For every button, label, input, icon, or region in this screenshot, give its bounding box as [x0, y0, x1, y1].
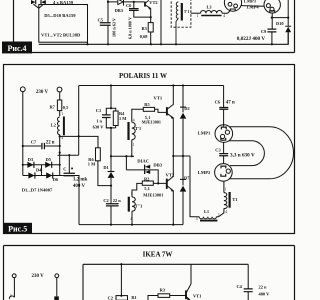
wire midpoint to L1 [190, 156, 199, 217]
svg-text:L3: L3 [207, 5, 213, 10]
diode D6 glyph [41, 0, 46, 4]
svg-text:0,5: 0,5 [63, 105, 69, 110]
svg-text:T1: T1 [232, 197, 238, 202]
svg-text:VT2: VT2 [149, 0, 157, 5]
svg-text:POLARIS 11 W: POLARIS 11 W [119, 72, 167, 80]
svg-text:R5: R5 [144, 102, 150, 107]
svg-text:4 x BA159: 4 x BA159 [53, 0, 74, 5]
svg-text:Рис.5: Рис.5 [8, 224, 27, 233]
section 1 frame (Fig.4) [2, 0, 295, 53]
svg-text:MJE13001: MJE13001 [142, 120, 161, 125]
bottom rail section 1 [39, 32, 288, 44]
svg-text:VT1: VT1 [193, 294, 201, 299]
diac branch wire [125, 156, 127, 170]
junction dots section 2 [22, 84, 184, 225]
svg-text:22 n: 22 n [259, 285, 267, 290]
svg-text:L2: L2 [51, 123, 56, 128]
wire T1 to rail [176, 18, 178, 44]
capacitor C1 [102, 115, 111, 118]
svg-text:1: 1 [197, 14, 199, 18]
wire C8 top [58, 154, 79, 156]
svg-text:1: 1 [225, 188, 227, 192]
svg-text:LMP3: LMP3 [244, 0, 257, 3]
svg-text:C4: C4 [237, 284, 243, 289]
svg-text:230 V: 230 V [36, 90, 49, 95]
svg-text:0,022J 400 V: 0,022J 400 V [237, 36, 266, 42]
svg-text:R2: R2 [144, 176, 149, 181]
svg-text:D10: D10 [276, 21, 284, 26]
top rail [79, 85, 224, 87]
svg-text:D1...D7 1N4007: D1...D7 1N4007 [22, 187, 53, 192]
svg-text:C2: C2 [103, 198, 108, 203]
resistor R3 (top) [148, 23, 153, 32]
bottom rail section 2 [79, 224, 183, 226]
capacitor C9 [267, 29, 276, 32]
bridge mid column [41, 165, 43, 176]
section 3 frame [4, 246, 295, 300]
lamp LMP4 [264, 0, 280, 29]
lamp tube loop inner [229, 141, 265, 166]
svg-text:C9: C9 [261, 29, 267, 34]
svg-text:T'1: T'1 [184, 10, 190, 14]
terminal right [57, 87, 62, 92]
svg-text:C6: C6 [126, 3, 132, 8]
resistor R1 [116, 296, 128, 300]
svg-text:22 n: 22 n [113, 198, 121, 203]
svg-text:C6: C6 [215, 100, 221, 105]
T1 core [181, 3, 183, 21]
svg-text:5,1: 5,1 [144, 186, 150, 191]
svg-text:1: 1 [218, 213, 220, 217]
svg-text:C1: C1 [96, 108, 101, 113]
svg-text:D5: D5 [46, 157, 52, 162]
resistor R7 [59, 92, 61, 100]
wire right terminal pad [56, 278, 58, 297]
svg-text:R3: R3 [160, 288, 166, 293]
svg-text:47 n: 47 n [226, 101, 235, 106]
transistor VT1 s3 [186, 264, 191, 300]
diac DB3 [126, 170, 158, 184]
svg-text:1: 1 [133, 143, 135, 147]
svg-text:1: 1 [61, 112, 63, 116]
svg-text:DB3: DB3 [153, 162, 162, 167]
wire node to diac [111, 155, 134, 157]
svg-text:C2: C2 [108, 295, 113, 300]
svg-text:IKEA 7W: IKEA 7W [143, 251, 173, 259]
bus vertical [78, 86, 80, 156]
svg-text:C3: C3 [215, 148, 221, 153]
capacitor C5 [100, 23, 111, 26]
capacitor C8 electrolytic [64, 155, 76, 176]
svg-text:DB3: DB3 [115, 8, 124, 13]
wire x161 [160, 0, 162, 44]
diode D5 glyph [31, 0, 35, 4]
svg-text:D1: D1 [103, 165, 108, 170]
svg-text:LMP1: LMP1 [198, 130, 211, 135]
svg-text:T''1: T''1 [135, 203, 143, 208]
wire C9-D10 top [272, 17, 288, 19]
svg-text:4: 4 [196, 217, 198, 221]
rail section 3 [83, 264, 248, 300]
bridge bottom wire [23, 176, 79, 225]
transformer T1 (output) [224, 181, 230, 209]
svg-text:D2: D2 [184, 106, 189, 111]
resistor R6 [96, 148, 101, 161]
resistor R2 [142, 181, 153, 185]
resistor R5 [143, 107, 154, 111]
diode D4 [28, 172, 34, 178]
lamp LMP3 [224, 0, 241, 11]
T1 primary winding [176, 2, 178, 18]
diac DB3 [118, 0, 123, 5]
svg-text:LMP2: LMP2 [198, 170, 211, 175]
transformer T1 dashed box [171, 0, 191, 27]
diac DB3 bar [123, 0, 125, 6]
svg-text:R7: R7 [50, 104, 56, 109]
svg-text:R3: R3 [142, 26, 148, 31]
svg-text:4: 4 [225, 210, 227, 214]
svg-text:1: 1 [131, 192, 133, 196]
svg-text:400 V: 400 V [259, 292, 271, 297]
terminal left [20, 87, 25, 92]
svg-text:1 M: 1 M [88, 161, 96, 166]
wire LMP3-LMP4 [242, 5, 265, 8]
diode D5 [45, 162, 51, 168]
lamp tube loop outer [229, 127, 293, 179]
svg-text:LMP4: LMP4 [247, 5, 260, 10]
svg-text:MJE13001: MJE13001 [143, 193, 163, 198]
wire to R6 [60, 136, 98, 147]
diode D2 [180, 86, 186, 157]
capacitor C4 [244, 264, 253, 300]
diode D3 [27, 162, 33, 168]
svg-text:T'1: T'1 [135, 126, 141, 131]
midpoint wire [173, 155, 190, 157]
capacitor C3 [219, 154, 228, 156]
capacitor C2 [106, 186, 119, 225]
svg-text:3,3 n 630 V: 3,3 n 630 V [230, 152, 255, 158]
wire diac row [108, 0, 144, 6]
svg-text:630 V: 630 V [93, 125, 105, 130]
label Рис.4 [2, 42, 32, 54]
svg-text:C7: C7 [31, 140, 37, 145]
svg-text:4: 4 [133, 119, 135, 123]
cut-off bridge diodes top [36, 0, 41, 4]
resistor R4 [113, 111, 118, 126]
junction dots rail1 [86, 43, 273, 45]
svg-text:0,68: 0,68 [140, 34, 148, 39]
svg-text:230 V: 230 V [31, 274, 44, 279]
svg-text:1,2 mk: 1,2 mk [73, 178, 88, 183]
main rail x111 with C1/R4 [102, 86, 116, 157]
svg-text:L1: L1 [204, 209, 209, 214]
svg-text:D4: D4 [36, 167, 42, 172]
svg-text:1 M: 1 M [119, 116, 127, 121]
svg-text:4: 4 [223, 14, 225, 18]
inductor cut bottom left [9, 296, 14, 299]
wire left AC line [22, 92, 24, 176]
annotation box BA159/BUL38D [39, 5, 88, 43]
wire left terminal to L [13, 278, 15, 298]
svg-text:6,8 n 1000 V: 6,8 n 1000 V [128, 17, 133, 39]
svg-text:C5: C5 [98, 17, 104, 22]
svg-text:D5...D10 BA159: D5...D10 BA159 [44, 13, 76, 18]
diode D7 [180, 156, 186, 225]
label Рис.5 [4, 223, 33, 234]
diode D1 [110, 156, 112, 171]
terminal left s3 [12, 274, 16, 278]
svg-text:22 n: 22 n [46, 141, 55, 146]
capacitor C7 [23, 143, 60, 149]
svg-text:D7: D7 [184, 175, 190, 180]
svg-text:Рис.4: Рис.4 [7, 44, 26, 53]
svg-text:1 n: 1 n [96, 119, 102, 124]
wire C5 branch [100, 0, 111, 44]
svg-text:400 V: 400 V [73, 184, 86, 189]
svg-text:100 n 63 V: 100 n 63 V [111, 18, 116, 37]
transistor VT2 (top) [144, 2, 146, 7]
svg-text:R1: R1 [131, 295, 136, 300]
bridge top wire [23, 164, 60, 166]
T''1 winding [129, 197, 136, 225]
svg-text:D3: D3 [28, 157, 34, 162]
svg-text:VT1: VT1 [154, 95, 163, 100]
wire drop to R1 [120, 264, 122, 295]
svg-text:VT1...VT2 BUL38D: VT1...VT2 BUL38D [41, 33, 81, 38]
resistor R3 s3 [158, 294, 170, 298]
svg-text:DIAC: DIAC [137, 159, 149, 164]
section 2 frame [4, 65, 295, 234]
terminal right s3 [55, 274, 59, 278]
svg-text:D6: D6 [53, 177, 59, 182]
svg-text:4: 4 [10, 294, 12, 298]
transformer T'1 [129, 109, 144, 156]
svg-text:C: C [63, 167, 66, 172]
diode D6 [46, 172, 52, 178]
capacitor C6 [219, 108, 228, 110]
svg-text:4: 4 [130, 217, 132, 221]
